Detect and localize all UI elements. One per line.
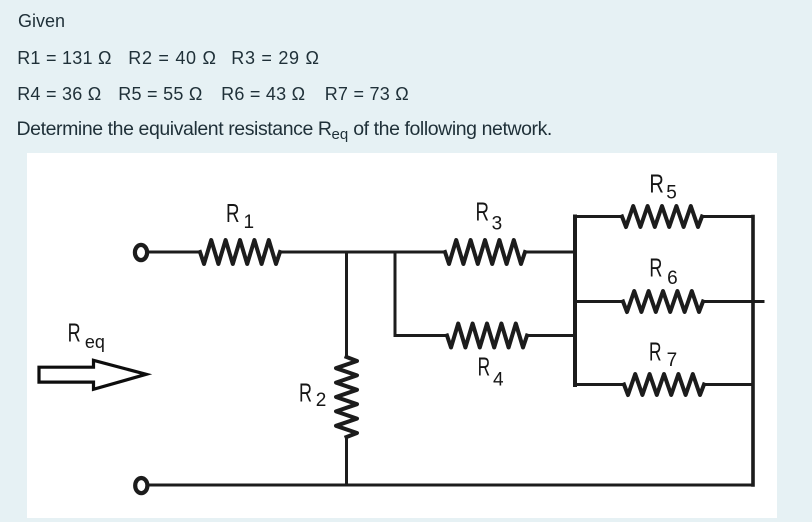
svg-text:3: 3 bbox=[492, 213, 503, 234]
svg-text:R: R bbox=[478, 352, 491, 382]
svg-text:R: R bbox=[649, 253, 662, 283]
svg-text:7: 7 bbox=[667, 350, 678, 371]
svg-text:4: 4 bbox=[493, 370, 504, 391]
svg-text:R: R bbox=[68, 317, 81, 347]
svg-text:R: R bbox=[649, 336, 662, 366]
svg-text:5: 5 bbox=[666, 183, 677, 204]
svg-text:eq: eq bbox=[85, 332, 105, 352]
svg-text:R: R bbox=[476, 197, 490, 227]
svg-text:R: R bbox=[649, 169, 664, 199]
svg-text:R: R bbox=[226, 198, 240, 228]
svg-text:6: 6 bbox=[667, 268, 678, 289]
svg-text:R: R bbox=[299, 378, 312, 408]
svg-text:1: 1 bbox=[244, 212, 255, 233]
svg-text:2: 2 bbox=[316, 390, 327, 411]
